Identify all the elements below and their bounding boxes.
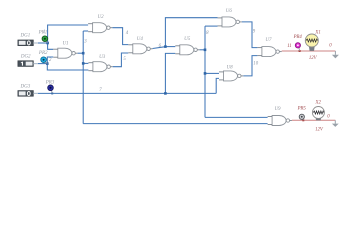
op gate U6 NAND xyxy=(218,9,242,27)
op gate U2 NAND xyxy=(88,15,112,33)
wire net1 DG1 output row xyxy=(38,42,48,44)
wire net9 U6 output to U7 top xyxy=(242,22,258,48)
svg-text:0: 0 xyxy=(329,43,332,48)
svg-text:U9: U9 xyxy=(274,107,281,112)
node net2 junction xyxy=(46,62,49,65)
svg-text:10: 10 xyxy=(253,61,258,66)
wire net11 U7 output to lamp X1 and ground xyxy=(282,50,336,52)
svg-text:PR4: PR4 xyxy=(293,35,303,40)
svg-text:DG3: DG3 xyxy=(20,84,31,89)
svg-text:3: 3 xyxy=(84,40,87,45)
svg-text:PR3: PR3 xyxy=(45,81,55,86)
node net3 junction at U3 top xyxy=(82,62,85,65)
probe PR2 xyxy=(38,51,48,63)
wire net3 U1 output xyxy=(78,52,84,54)
svg-text:DG2: DG2 xyxy=(20,54,31,59)
node net12 probe junction xyxy=(302,119,304,121)
wire net2 up to U1 bottom xyxy=(47,57,53,64)
probe PR4 xyxy=(293,35,303,51)
wire net12 U9 output to lamp X2 and ground xyxy=(292,119,335,121)
probe PR3 xyxy=(45,81,55,94)
node net3 junction at U1 output xyxy=(82,52,85,55)
node net8 junction at U8 top xyxy=(204,72,207,75)
wire net6 to U5 top xyxy=(165,46,175,48)
svg-text:U4: U4 xyxy=(137,37,144,42)
probe PR1 xyxy=(38,31,48,43)
svg-text:X1: X1 xyxy=(314,31,320,36)
wire net1 riser up to U2 xyxy=(48,25,89,43)
lamp X2 xyxy=(312,100,324,132)
ground net0 at X2 xyxy=(327,115,339,127)
svg-text:U2: U2 xyxy=(98,15,105,20)
wire net3 to U2 bottom xyxy=(83,30,88,32)
lamp X1 xyxy=(305,31,320,61)
op gate U4 NAND xyxy=(128,37,152,54)
svg-text:5: 5 xyxy=(123,57,126,62)
probe PR5 xyxy=(297,106,307,120)
svg-text:1: 1 xyxy=(43,30,45,35)
wire net6 riser up to U6 top xyxy=(165,18,217,47)
node net7 junction xyxy=(164,92,167,95)
svg-text:U1: U1 xyxy=(62,41,68,46)
svg-text:U7: U7 xyxy=(265,38,272,43)
svg-text:12V: 12V xyxy=(309,56,318,61)
wire net2 down to U3 bottom xyxy=(47,64,88,70)
node net1 junction xyxy=(46,42,49,45)
wire net8 to U6 bottom xyxy=(205,25,218,27)
op gate U8 NAND xyxy=(219,65,243,81)
wire net1 branch down to U1 top xyxy=(48,43,54,49)
node net6 junction xyxy=(164,45,167,48)
op gate U7 NAND xyxy=(257,38,281,57)
op gate U5 NAND xyxy=(175,37,199,55)
wire net5 U3 output to U4 bottom xyxy=(113,53,129,67)
wire net8 vertical bus xyxy=(204,26,206,117)
svg-text:U6: U6 xyxy=(226,9,233,14)
svg-text:U5: U5 xyxy=(184,37,191,42)
svg-text:12V: 12V xyxy=(315,128,324,133)
wire net8 to U8 top xyxy=(205,72,219,74)
svg-text:PR2: PR2 xyxy=(38,51,48,56)
op gate U3 NAND xyxy=(88,55,112,72)
svg-text:2: 2 xyxy=(49,58,52,63)
wire net3 vertical bus xyxy=(82,31,84,124)
node net8 junction at U5 output xyxy=(204,49,207,52)
op gate U9 NAND xyxy=(268,107,292,125)
wire net3 bottom row to U9 xyxy=(83,123,267,125)
wire net8 bottom row to U9 top xyxy=(205,116,268,118)
svg-text:8: 8 xyxy=(206,31,209,36)
wire net10 U8 output to U7 bottom xyxy=(243,56,257,76)
wire net2 DG2 output row xyxy=(38,63,48,65)
wire net7 riser to U5 bottom xyxy=(165,53,175,93)
ground net0 at X1 xyxy=(329,43,339,58)
node net7 probe junction xyxy=(51,92,53,94)
wire net8 U5 output xyxy=(200,49,205,51)
svg-text:4: 4 xyxy=(126,31,129,36)
svg-text:DG1: DG1 xyxy=(20,34,31,39)
svg-text:7: 7 xyxy=(99,88,102,93)
wire net7 riser to U8 bottom xyxy=(216,78,219,93)
node net11 probe junction xyxy=(299,50,301,52)
svg-text:11: 11 xyxy=(287,44,291,49)
wire net4 U2 output to U4 top xyxy=(112,28,128,45)
svg-text:X2: X2 xyxy=(315,100,322,105)
svg-text:0: 0 xyxy=(327,115,330,120)
svg-text:9: 9 xyxy=(253,30,256,35)
svg-text:PR5: PR5 xyxy=(297,106,307,111)
wire net7 DG3 output row xyxy=(38,92,216,94)
switch DG1 xyxy=(18,34,38,46)
svg-text:6: 6 xyxy=(159,44,162,49)
wire net6 U4 output xyxy=(153,47,166,49)
switch DG3 xyxy=(18,84,38,96)
wire net3 to U3 top xyxy=(83,62,88,64)
svg-text:U3: U3 xyxy=(99,55,106,60)
op gate U1 NAND xyxy=(53,41,77,58)
svg-text:U8: U8 xyxy=(227,65,234,70)
switch DG2 xyxy=(18,54,38,66)
